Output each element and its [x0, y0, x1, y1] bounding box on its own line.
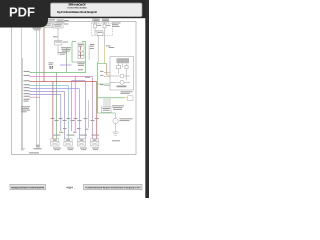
svg-text:Page 1 -: Page 1 - [67, 188, 76, 190]
svg-text:PDF: PDF [9, 5, 35, 20]
svg-text:2000 Honda Civic DX: 2000 Honda Civic DX [68, 3, 86, 7]
svg-text:Fig. 6: Anti-lock Brakes Circu: Fig. 6: Anti-lock Brakes Circuit, Design… [57, 10, 97, 14]
